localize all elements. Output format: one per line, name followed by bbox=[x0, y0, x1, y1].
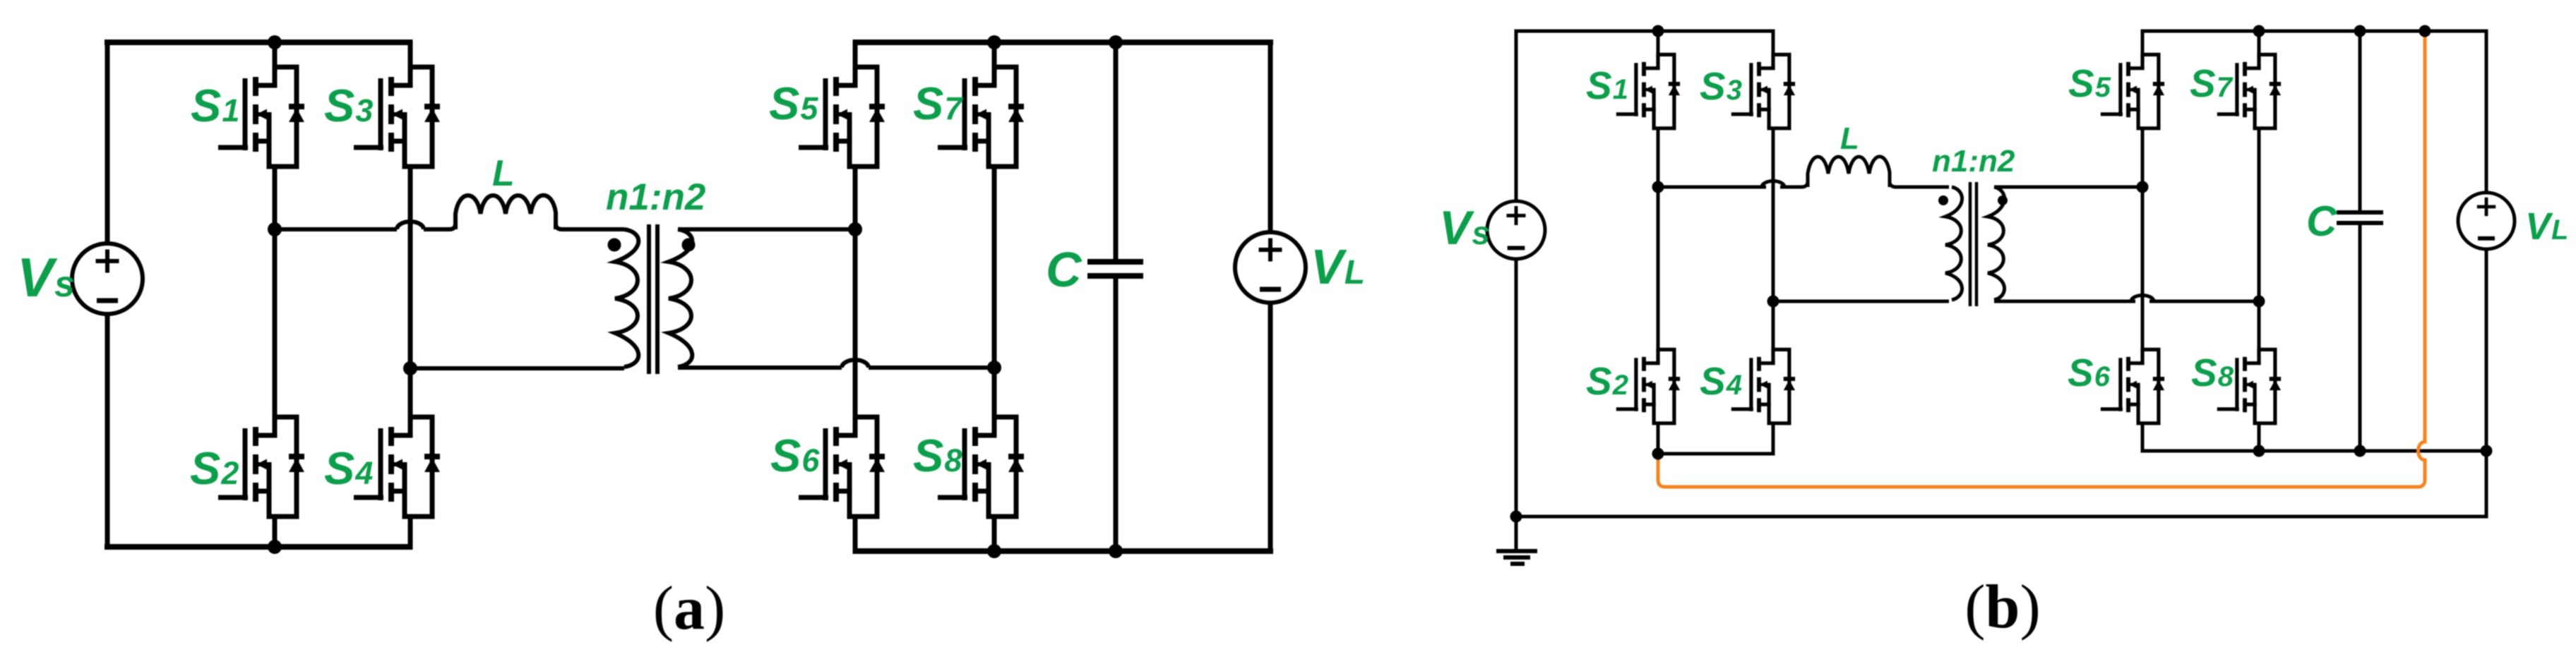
svg-text:C: C bbox=[1046, 242, 1083, 297]
svg-text:L: L bbox=[1840, 121, 1859, 156]
svg-text:n1:n2: n1:n2 bbox=[1932, 144, 2015, 179]
svg-text:L: L bbox=[492, 153, 515, 194]
svg-text:C: C bbox=[2306, 198, 2338, 245]
svg-text:(b): (b) bbox=[1964, 573, 2041, 641]
svg-text:(a): (a) bbox=[653, 574, 726, 643]
svg-text:n1:n2: n1:n2 bbox=[606, 176, 705, 218]
